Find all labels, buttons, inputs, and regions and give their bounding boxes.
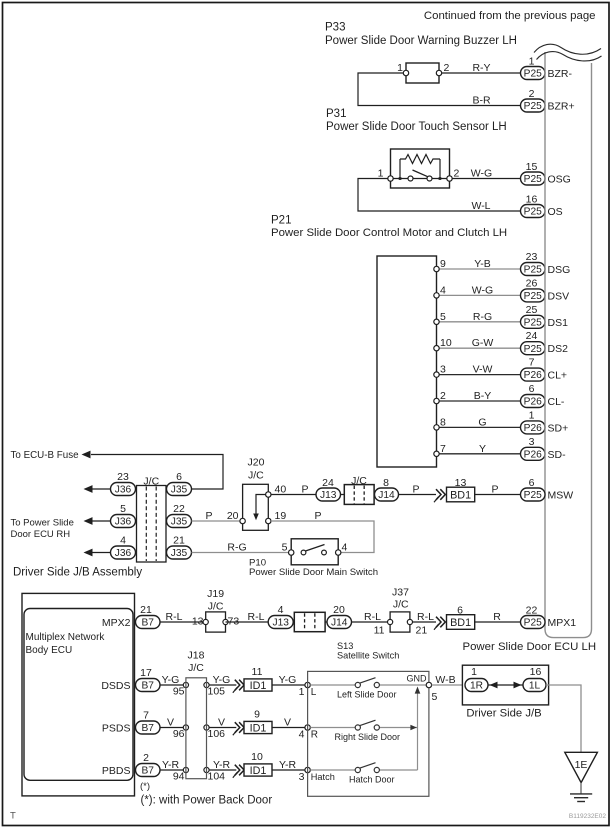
svg-text:W-G: W-G [472,284,493,296]
J18 pins 94/104 [183,767,188,772]
satellite switch pin 3 [305,767,310,772]
svg-text:V: V [284,717,291,729]
ground symbol [580,783,582,794]
wire W-G motor pin 4 to P25 DSV [437,294,521,296]
svg-text:1: 1 [529,409,535,421]
svg-text:105: 105 [208,686,226,698]
svg-text:J20: J20 [248,457,265,469]
svg-text:2: 2 [454,168,460,180]
svg-text:Y: Y [479,443,486,455]
svg-text:Y-G: Y-G [279,674,297,686]
wire Y-B motor pin 9 to P25 DSG [437,268,521,270]
svg-text:L: L [311,687,317,698]
svg-text:R-L: R-L [364,611,381,623]
svg-text:17: 17 [140,667,152,679]
svg-text:1: 1 [299,686,305,698]
svg-text:J36: J36 [115,548,132,559]
Left Slide Door switch [310,684,355,686]
svg-text:21: 21 [173,535,185,547]
svg-text:22: 22 [173,503,185,515]
J/B internal link arrows [488,684,523,686]
resistor inside touch sensor [399,159,401,179]
svg-text:ID1: ID1 [250,765,267,777]
svg-text:B7: B7 [142,618,155,629]
wire P from J14 to BD1 [399,494,437,496]
svg-text:96: 96 [173,728,185,740]
wire Y motor pin 7 to P26 SD- [437,453,521,455]
wire R-L from J37 21 to BD1 6 [413,621,437,623]
svg-text:15: 15 [526,161,538,173]
svg-text:3: 3 [440,364,446,376]
svg-text:B7: B7 [142,681,155,692]
svg-text:23: 23 [526,251,538,263]
svg-text:R-G: R-G [473,311,492,323]
svg-text:B7: B7 [142,723,155,734]
svg-text:BD1: BD1 [450,617,471,629]
svg-text:24: 24 [526,330,538,342]
svg-text:(*): (*) [140,781,150,792]
J18 pins 95/105 [183,682,188,687]
wire Y-G from B7 to J18 [160,684,186,686]
svg-text:3: 3 [529,436,535,448]
svg-text:Y-R: Y-R [162,759,180,771]
svg-text:1: 1 [397,62,403,74]
svg-text:25: 25 [526,304,538,316]
svg-text:P: P [301,484,308,496]
svg-text:Left Slide Door: Left Slide Door [337,690,397,700]
svg-text:DS2: DS2 [548,343,569,355]
svg-text:R: R [493,611,501,623]
svg-text:MPX1: MPX1 [548,617,577,629]
svg-text:To Power Slide: To Power Slide [11,518,74,529]
svg-text:R-L: R-L [166,611,183,623]
svg-text:Driver Side J/B Assembly: Driver Side J/B Assembly [13,567,142,579]
svg-text:Power Slide Door Control Motor: Power Slide Door Control Motor and Clutc… [271,227,507,239]
svg-text:G: G [478,416,486,428]
svg-text:P26: P26 [524,397,542,408]
svg-text:5: 5 [440,311,446,323]
svg-text:1E: 1E [575,759,588,771]
ECU Power Slide Door ECU LH outline (continued page tear) [545,52,592,638]
svg-text:J14: J14 [378,490,395,501]
svg-text:Y-G: Y-G [213,674,231,686]
svg-text:P25: P25 [524,490,542,501]
svg-text:J/C: J/C [393,599,409,611]
svg-text:8: 8 [440,416,446,428]
wire B-R from buzzer pin 1 to P25 pin 2 [358,73,520,106]
svg-text:5: 5 [432,691,438,703]
svg-text:95: 95 [173,686,185,698]
sensor pin 1 [388,176,393,181]
svg-text:J37: J37 [392,587,409,599]
svg-text:6: 6 [529,477,535,489]
svg-text:ID1: ID1 [250,722,267,734]
svg-text:24: 24 [322,477,334,489]
wire R from BD1 to P25 22 [475,621,520,623]
svg-text:To ECU-B Fuse: To ECU-B Fuse [11,450,80,461]
wire B-Y motor pin 2 to P26 CL- [437,400,521,402]
wire W-L from sensor pin 1 to P25 pin 16 [358,179,520,212]
main switch P10 body [291,539,338,565]
svg-text:Door ECU RH: Door ECU RH [11,529,71,540]
svg-text:4: 4 [342,542,348,554]
svg-text:J14: J14 [331,618,348,629]
J18 pins 96/106 [183,725,188,730]
ground point 1E triangle [565,752,598,782]
touch sensor P31 body [391,149,450,188]
svg-text:W-B: W-B [435,674,455,686]
svg-text:J18: J18 [188,650,205,662]
svg-text:J/C: J/C [208,601,224,613]
svg-text:20: 20 [227,510,239,522]
svg-text:2: 2 [529,88,535,100]
wire G-W motor pin 10 to P25 DS2 [437,347,521,349]
svg-text:SD+: SD+ [548,422,569,434]
svg-text:11: 11 [374,625,385,637]
junction grid J/C on MPX2 row [293,621,327,623]
wire R-Y from buzzer pin 2 to P25 pin 1 [439,72,520,74]
wire R-L from B7 21 to J19 13 [160,621,206,623]
svg-text:Continued from the previous pa: Continued from the previous page [424,10,596,22]
svg-text:MSW: MSW [548,490,574,502]
connector ID1 pin 9 [244,721,272,733]
svg-text:DSV: DSV [548,290,570,302]
buzzer pin 1 [403,70,408,75]
svg-text:6: 6 [457,605,463,617]
svg-text:4: 4 [278,604,284,616]
wire R-L from J14 20 to J37 11 [352,621,391,623]
svg-text:P31: P31 [326,108,346,120]
svg-text:R-Y: R-Y [472,62,490,74]
satellite switch S13 body [308,671,429,796]
svg-text:B-Y: B-Y [474,390,492,402]
svg-text:B119232E02: B119232E02 [569,813,606,820]
svg-text:BD1: BD1 [450,489,471,501]
motor P21 body [377,256,437,467]
svg-text:104: 104 [208,771,226,783]
wire Y-R from B7 to J18 [160,769,186,771]
svg-text:19: 19 [275,510,287,522]
svg-text:V: V [218,717,225,729]
wire V from B7 to J18 [160,727,186,729]
sensor pin 2 [447,176,452,181]
svg-text:P25: P25 [524,344,542,355]
P10 switch contacts [301,550,306,555]
connector ID1 pin 11 [244,679,272,691]
svg-text:6: 6 [176,471,182,483]
svg-text:23: 23 [117,471,129,483]
svg-text:GND: GND [407,674,428,684]
wire P from J35 pin 22 to J20 pin 20 [192,520,242,522]
svg-text:10: 10 [251,751,263,763]
svg-text:R-G: R-G [227,542,246,554]
wire R-G motor pin 5 to P25 DS1 [437,321,521,323]
svg-text:OSG: OSG [548,174,571,186]
wire W-G from sensor pin 2 to P25 pin 15 [450,178,521,180]
satellite switch pin 5 GND output [426,682,431,687]
svg-text:9: 9 [440,258,446,270]
svg-text:1: 1 [378,168,384,180]
buzzer pin 2 [436,70,441,75]
svg-text:J35: J35 [171,485,188,496]
wire Y-G from J18 to ID1 [209,684,236,686]
wire Y-G from ID1 to satellite switch pin 1 [272,684,305,686]
svg-text:2: 2 [444,62,450,74]
svg-text:P25: P25 [524,265,542,276]
svg-text:BZR+: BZR+ [548,101,575,113]
wire P from BD1 to P25 pin 6 [475,494,520,496]
svg-text:P: P [412,484,419,496]
sensor internal wire and junctions [393,178,447,180]
svg-text:P26: P26 [524,449,542,460]
svg-text:Driver Side J/B: Driver Side J/B [466,708,541,720]
wire V from ID1 to satellite switch pin 4 [272,727,305,729]
connector BD1 pin 6 [447,615,475,630]
svg-text:P: P [491,484,498,496]
svg-text:DS1: DS1 [548,317,569,329]
GND bus inside satellite switch [417,693,419,770]
svg-text:J35: J35 [171,548,188,559]
Right Slide Door switch [310,727,355,729]
svg-text:Power Slide Door ECU LH: Power Slide Door ECU LH [463,641,597,653]
svg-text:21: 21 [416,625,428,637]
svg-text:V: V [167,717,174,729]
svg-text:Power Slide Door Touch Sensor: Power Slide Door Touch Sensor LH [326,121,507,133]
wire R-L from J19 73 to J13 4 [226,621,269,623]
svg-text:SD-: SD- [548,449,567,461]
svg-text:R: R [311,730,318,741]
wire V-W motor pin 3 to P26 CL+ [437,374,521,376]
svg-text:20: 20 [333,604,345,616]
svg-text:16: 16 [530,666,542,678]
svg-text:26: 26 [526,277,538,289]
wire V from J18 to ID1 [209,727,236,729]
svg-text:94: 94 [173,771,185,783]
svg-text:J13: J13 [272,618,289,629]
svg-text:P: P [205,510,212,522]
Multiplex Network Body ECU outer shell [22,593,135,796]
svg-text:W-L: W-L [471,200,490,212]
left arrow row 23 [84,485,93,493]
svg-text:DSDS: DSDS [101,680,130,692]
satellite switch pin 4 [305,725,310,730]
svg-text:PBDS: PBDS [102,765,131,777]
svg-text:P25: P25 [524,69,542,80]
svg-text:13: 13 [192,616,204,628]
svg-text:PSDS: PSDS [102,723,131,735]
svg-text:2: 2 [143,752,149,764]
P10 pin 5 [289,550,294,555]
junction block J/C dashed box between J36 and J35 [137,486,167,563]
harness crossing chevrons to BD1 [436,489,441,500]
svg-text:Y-G: Y-G [162,674,180,686]
J20 pin 19 [266,518,271,523]
wire Y-R from ID1 to satellite switch pin 3 [272,769,305,771]
svg-text:P25: P25 [524,317,542,328]
satellite switch pin 1 [305,682,310,687]
svg-text:CL-: CL- [548,396,565,408]
svg-text:J/C: J/C [188,662,204,674]
svg-text:R-L: R-L [248,611,265,623]
torn-page wavy line lower [537,52,602,61]
P10 pin 4 [336,550,341,555]
left arrow row 4 [84,549,93,557]
svg-text:V-W: V-W [473,364,493,376]
svg-text:7: 7 [440,443,446,455]
Hatch Door switch [310,769,355,771]
svg-text:G-W: G-W [472,337,494,349]
wire W-B from satellite switch to driver side J/B 1R [432,684,465,686]
svg-text:DSG: DSG [548,264,571,276]
svg-text:T: T [10,811,16,822]
svg-text:Power Slide Door Main Switch: Power Slide Door Main Switch [249,567,378,578]
svg-text:J35: J35 [171,517,188,528]
svg-text:J/C: J/C [248,470,264,482]
J20 internal link arrow [256,495,266,516]
svg-text:1R: 1R [470,681,483,692]
buzzer P33 body [406,63,439,83]
J20 pin 40 [266,492,271,497]
svg-text:5: 5 [120,503,126,515]
wire R-G from J35 pin 21 to main switch pin 5 [192,552,290,554]
svg-text:P25: P25 [524,618,542,629]
Multiplex Network Body ECU inner body [24,609,133,781]
svg-text:W-G: W-G [471,168,492,180]
wire W-B from 1L to ground 1E [546,685,581,752]
J20 pin 20 [240,518,245,523]
svg-text:21: 21 [140,604,152,616]
svg-text:1L: 1L [529,681,541,692]
svg-text:5: 5 [282,542,288,554]
svg-text:B7: B7 [142,766,155,777]
svg-text:J/C: J/C [143,476,159,488]
svg-text:7: 7 [529,357,535,369]
svg-text:P26: P26 [524,423,542,434]
svg-text:4: 4 [440,284,446,296]
junction grid J/C on MSW row [341,494,375,496]
svg-text:Satellite Switch: Satellite Switch [337,651,399,661]
switch inside touch sensor [408,176,413,181]
wire to ECU-B fuse [91,455,223,490]
svg-text:Y-R: Y-R [213,759,231,771]
wire G motor pin 8 to P26 SD+ [437,426,521,428]
svg-text:MPX2: MPX2 [102,617,131,629]
svg-text:16: 16 [526,194,538,206]
svg-text:Multiplex Network: Multiplex Network [26,632,106,643]
left arrow row 5 [84,517,93,525]
svg-text:1: 1 [529,56,535,68]
svg-text:B-R: B-R [472,95,491,107]
connector ID1 pin 10 [244,764,272,776]
svg-text:P25: P25 [524,291,542,302]
svg-text:J36: J36 [115,517,132,528]
svg-text:11: 11 [252,666,263,678]
torn-page wavy line upper [534,44,601,54]
svg-text:J13: J13 [320,490,337,501]
svg-text:4: 4 [299,729,305,741]
svg-text:P25: P25 [524,174,542,185]
svg-text:OS: OS [548,206,563,218]
svg-text:S13: S13 [337,641,353,651]
svg-text:106: 106 [208,728,226,740]
svg-text:22: 22 [526,605,538,617]
wire Y-R from J18 to ID1 [209,769,236,771]
svg-text:ID1: ID1 [250,680,267,692]
svg-text:J36: J36 [115,485,132,496]
svg-text:Hatch Door: Hatch Door [349,775,395,785]
svg-text:4: 4 [120,535,126,547]
wire P from J20 pin 40 to J13 pin 24 [271,494,316,496]
svg-text:13: 13 [455,477,467,489]
svg-text:J/C: J/C [351,475,367,487]
svg-text:2: 2 [440,390,446,402]
svg-text:10: 10 [440,337,452,349]
svg-text:Right Slide Door: Right Slide Door [335,732,401,742]
connector J14 pin 8 [375,488,399,501]
svg-text:Power Slide Door Warning Buzze: Power Slide Door Warning Buzzer LH [325,35,517,47]
svg-text:CL+: CL+ [548,370,568,382]
svg-text:6: 6 [529,383,535,395]
svg-text:Hatch: Hatch [311,772,335,782]
svg-text:Y-B: Y-B [474,258,491,270]
svg-text:P25: P25 [524,101,542,112]
svg-text:8: 8 [383,477,389,489]
svg-text:R-L: R-L [417,611,434,623]
svg-text:BZR-: BZR- [548,68,573,80]
svg-text:P: P [314,510,321,522]
svg-text:J19: J19 [207,588,224,600]
svg-text:P25: P25 [524,207,542,218]
wire P from J20 pin 19 to main switch pin 4 [271,521,374,553]
svg-text:Body ECU: Body ECU [26,645,73,656]
svg-text:9: 9 [254,709,260,721]
svg-text:P33: P33 [325,22,345,34]
svg-text:40: 40 [275,484,287,496]
connector BD1 pin 13 [447,487,475,502]
svg-text:1: 1 [471,666,477,678]
Driver Side J/B body [462,665,548,705]
svg-text:P26: P26 [524,370,542,381]
svg-text:Y-R: Y-R [279,759,297,771]
svg-text:(*): with Power Back Door: (*): with Power Back Door [141,795,273,807]
svg-text:3: 3 [299,771,305,783]
svg-text:7: 7 [143,710,149,722]
svg-text:P21: P21 [271,215,291,227]
